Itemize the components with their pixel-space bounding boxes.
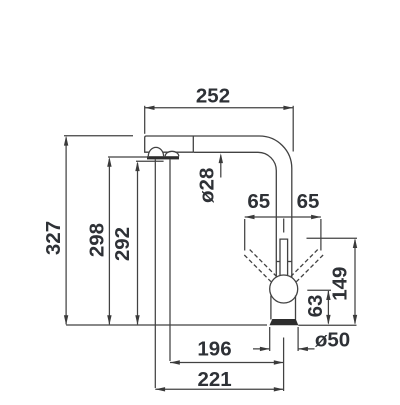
arrow 292 top — [135, 161, 139, 171]
counter line left — [66, 324, 267, 326]
dim o50 right arrow tail — [298, 348, 314, 350]
svg-text:298: 298 — [85, 223, 108, 257]
dim 252 extension left — [144, 106, 146, 134]
dim o50 left arrow tail — [253, 348, 270, 350]
spray button bump 1 — [148, 147, 163, 156]
lever tilted right (dashed) — [291, 250, 323, 282]
svg-text:63: 63 — [304, 295, 327, 318]
spray button bump 2 — [165, 151, 179, 156]
dim 196 extension (from small bump) — [169, 160, 171, 362]
arrow o50 right — [298, 347, 308, 351]
arrow 221 left — [155, 387, 165, 391]
spout top outline with bend — [145, 136, 292, 278]
axis extension below base — [283, 338, 285, 392]
arrow 327 top — [64, 136, 68, 146]
spray head bottom edge — [144, 151, 193, 153]
arrow 149 bottom — [353, 315, 357, 325]
dim 149 line — [354, 240, 356, 324]
dim o50 left extension — [269, 327, 271, 351]
arrow dia28 up — [219, 153, 223, 163]
arrow 149 top — [353, 238, 357, 248]
body cylinder below ball — [270, 296, 272, 320]
dim 298 line — [108, 159, 110, 325]
svg-text:65: 65 — [297, 190, 320, 213]
dim 252 extension right — [292, 106, 294, 152]
dim 252 line — [145, 107, 294, 109]
spout underside with inner bend — [194, 152, 277, 277]
svg-text:149: 149 — [329, 267, 352, 301]
svg-text:292: 292 — [111, 227, 134, 261]
arrow 196 left — [170, 360, 180, 364]
base plate — [270, 319, 299, 325]
lever ball joint — [270, 275, 298, 303]
counter line right — [298, 324, 356, 326]
arrow 65 left — [245, 215, 255, 219]
dia 28 leader line — [220, 156, 222, 178]
arrow 292 bottom — [135, 315, 139, 325]
arrowheads — [64, 106, 357, 392]
arrow 252 right — [283, 106, 293, 110]
lever tilted left (dashed) — [244, 250, 276, 282]
dim 298 top extension — [108, 156, 149, 158]
svg-text:252: 252 — [196, 84, 230, 107]
arrow 63 top — [326, 290, 330, 300]
dim o50 right extension — [297, 327, 299, 351]
lever rod — [280, 239, 288, 278]
arrow 196 right — [274, 360, 284, 364]
svg-text:ø28: ø28 — [196, 168, 219, 203]
svg-text:65: 65 — [247, 190, 270, 213]
dim 196 line — [170, 362, 284, 364]
center tick below 65 dim — [283, 219, 285, 233]
arrow 298 bottom — [107, 315, 111, 325]
dim 292 top extension — [136, 160, 164, 162]
dim 221 extension (from big bump) — [154, 160, 156, 389]
svg-text:196: 196 — [197, 337, 231, 360]
arrow 63 bottom — [326, 315, 330, 325]
arrow 298 top — [107, 157, 111, 167]
arrow o50 left — [260, 347, 270, 351]
arrow 252 left — [145, 106, 155, 110]
dim 65 left extension — [244, 219, 246, 251]
dim 63 top extension — [307, 289, 331, 291]
dim 221 line — [155, 388, 283, 390]
dim 65 right extension — [320, 219, 322, 251]
dim 63 line — [327, 291, 329, 324]
dim 327 line — [65, 138, 67, 325]
arrow 327 bottom — [64, 315, 68, 325]
arrow 221 right — [274, 387, 284, 391]
dim 292 line — [137, 163, 139, 324]
pipe seam line — [276, 261, 292, 263]
dim 65-65 line — [245, 216, 321, 218]
spray head divider — [192, 136, 194, 152]
dim 327 top extension — [64, 135, 133, 137]
arrow 65 right — [311, 215, 321, 219]
svg-text:ø50: ø50 — [315, 329, 350, 352]
aerator plate — [147, 156, 179, 159]
dim 149 top extension — [307, 237, 358, 239]
svg-text:327: 327 — [42, 221, 65, 255]
svg-text:221: 221 — [197, 368, 231, 391]
